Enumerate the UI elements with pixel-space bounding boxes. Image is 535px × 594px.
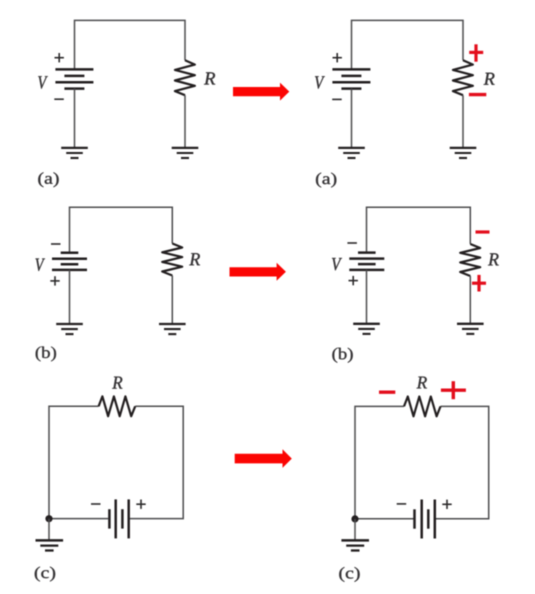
ground (a-right battery) [338, 148, 365, 158]
wire resistor to ground (b-right) [469, 276, 471, 324]
red minus polarity (c-right) [379, 391, 395, 394]
ground (c-left) [36, 540, 64, 550]
arrow (b) [230, 263, 286, 281]
ground (a-right resistor) [450, 148, 477, 158]
battery V plates (a-left) [55, 69, 93, 88]
plus sign battery (b-left) [50, 276, 59, 285]
resistor R zigzag (c-right) [404, 397, 441, 417]
wire node to ground (c-right) [354, 519, 356, 540]
label V (a-left) [38, 76, 48, 88]
label R (c-right) [417, 377, 427, 389]
battery V plates (b-right) [349, 253, 384, 270]
minus sign battery (c-right) [397, 503, 407, 505]
wire top loop b-right [367, 207, 471, 252]
label V (b-right) [332, 258, 342, 270]
plus sign battery (c-left) [136, 500, 145, 509]
label (c) right [339, 567, 359, 582]
ground (c-right) [341, 540, 369, 550]
wire top loop a-right [352, 20, 464, 69]
ground (b-left battery) [56, 324, 83, 334]
resistor R zigzag (c-left) [99, 396, 136, 416]
ground (a-left battery) [61, 148, 88, 158]
label V (b-left) [35, 259, 44, 271]
resistor R zigzag (b-left) [162, 244, 182, 276]
wire battery to ground (b-left) [69, 270, 71, 324]
resistor R zigzag (b-right) [460, 244, 480, 276]
label (c) left [35, 567, 55, 582]
battery V plates (c-left) [109, 499, 128, 538]
node junction dot (c-left) [45, 515, 52, 522]
label (b) left [36, 347, 56, 362]
wire top loop a-left [75, 20, 186, 69]
wire resistor to ground (a-right) [462, 95, 464, 147]
plus sign battery (a-right) [333, 53, 342, 62]
red minus polarity (b-right) [476, 230, 490, 233]
minus sign battery (a-left) [54, 98, 64, 100]
ground (b-right battery) [353, 324, 380, 334]
wire battery to ground (a-right) [351, 89, 353, 148]
minus sign battery (b-right) [347, 242, 357, 244]
resistor R zigzag (a-right) [453, 60, 473, 95]
label R (a-right) [484, 73, 495, 85]
wire loop left side (c-right) [355, 406, 414, 518]
wire node to ground (c-left) [48, 519, 50, 540]
red plus polarity (b-right) [472, 275, 486, 292]
wire battery to ground (a-left) [74, 89, 76, 148]
wire loop right side (c-left) [130, 406, 183, 518]
minus sign battery (a-right) [332, 98, 342, 100]
arrow (a) [233, 83, 289, 101]
node junction dot (c-right) [351, 515, 358, 522]
label (a) right [316, 173, 336, 188]
battery V plates (a-right) [332, 69, 370, 88]
label R (c-left) [112, 377, 122, 389]
ground (b-right resistor) [457, 324, 484, 334]
label V (a-right) [315, 76, 325, 88]
label (b) right [332, 348, 352, 363]
wire battery to ground (b-right) [366, 270, 368, 324]
red plus polarity (c-right) [441, 381, 466, 399]
label R (b-right) [488, 253, 499, 265]
minus sign battery (b-left) [51, 243, 61, 245]
red minus polarity (a-right) [469, 93, 486, 96]
minus sign battery (c-left) [91, 503, 101, 505]
label (a) left [38, 172, 58, 187]
plus sign battery (c-right) [442, 500, 451, 509]
wire loop left side (c-left) [49, 406, 108, 518]
plus sign battery (a-left) [55, 53, 64, 62]
resistor R zigzag (a-left) [175, 60, 195, 95]
wire resistor to ground (a-left) [184, 95, 186, 147]
plus sign battery (b-right) [349, 276, 358, 285]
label R (b-left) [189, 253, 200, 265]
arrow (c) [235, 449, 292, 468]
wire loop right side (c-right) [436, 406, 489, 518]
label R (a-left) [204, 72, 215, 84]
battery V plates (b-left) [52, 253, 87, 270]
battery V plates (c-right) [415, 500, 435, 539]
wire resistor to ground (b-left) [171, 276, 173, 324]
wire top loop b-left [70, 207, 173, 252]
ground (a-left resistor) [172, 148, 199, 158]
ground (b-left resistor) [159, 324, 186, 334]
red plus polarity (a-right) [469, 44, 483, 61]
